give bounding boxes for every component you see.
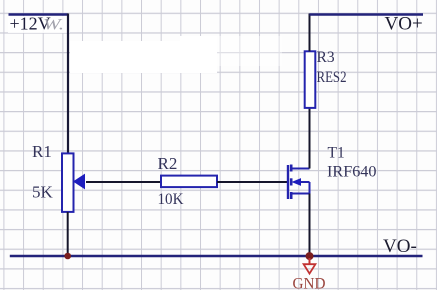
- net label +12V: [10, 14, 51, 34]
- power rail VO+ wire: [310, 13, 424, 15]
- wire R1 wiper to R2: [86, 181, 161, 183]
- label R2: [158, 154, 178, 173]
- net label VO-: [383, 236, 417, 257]
- svg-text:IRF640: IRF640: [327, 164, 377, 181]
- potentiometer R1 body: [62, 153, 74, 212]
- label R3: [317, 49, 335, 66]
- junction dot T1 source / VO-: [306, 252, 314, 260]
- svg-text:R1: R1: [32, 142, 52, 161]
- resistor R2 body: [161, 176, 217, 188]
- label T1: [328, 145, 345, 162]
- value 10K: [158, 191, 184, 208]
- svg-text:R3: R3: [317, 49, 335, 66]
- wire R2 to T1 gate: [217, 181, 287, 183]
- wire R1 bottom to VO- rail: [67, 212, 69, 256]
- net label VO+: [385, 14, 423, 35]
- svg-text:VO-: VO-: [383, 236, 417, 257]
- label GND: [293, 276, 326, 290]
- svg-text:T1: T1: [328, 145, 345, 162]
- svg-text:GND: GND: [293, 276, 326, 290]
- value RES2: [317, 69, 347, 86]
- ground symbol: [304, 258, 316, 274]
- junction dot R1 / VO-: [64, 253, 71, 260]
- wire +12V rail to R1 top: [67, 14, 69, 154]
- wire T1 drain to R3: [309, 108, 311, 169]
- value 5K: [32, 183, 54, 202]
- label R1: [32, 142, 52, 161]
- value IRF640: [327, 164, 377, 181]
- svg-text:R2: R2: [158, 154, 178, 173]
- power rail VO- wire: [10, 255, 423, 258]
- svg-text:10K: 10K: [158, 191, 184, 208]
- watermark ghost marks: [43, 17, 64, 34]
- wire R3 to VO+ rail: [309, 14, 311, 52]
- resistor R3 body: [305, 51, 316, 108]
- transistor T1 IRF640 N-MOSFET symbol: [288, 165, 310, 200]
- wire T1 source to VO- rail: [309, 194, 311, 257]
- svg-text:W.: W.: [43, 17, 64, 34]
- svg-text:RES2: RES2: [317, 69, 347, 86]
- svg-text:VO+: VO+: [385, 14, 423, 35]
- svg-text:5K: 5K: [32, 183, 54, 202]
- power rail +12V wire: [9, 13, 69, 15]
- potentiometer R1 wiper arrow: [73, 174, 85, 190]
